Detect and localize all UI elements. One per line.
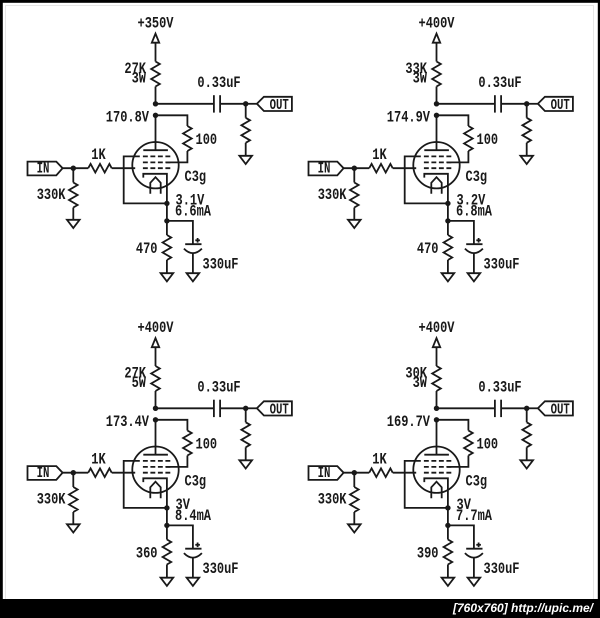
wire R11 to plate node xyxy=(155,87,157,104)
wire R15 to control grid g1 xyxy=(112,167,136,169)
wire OUT node to R42 xyxy=(526,408,528,422)
wire R16 to ground xyxy=(72,208,74,220)
node plate voltage measure point 174.9V xyxy=(434,113,439,118)
node cathode RC junction circuit 3 xyxy=(164,523,169,528)
wire R21 to plate node xyxy=(436,87,438,104)
wire to R14 xyxy=(166,221,168,235)
wire cathode junction to C32 xyxy=(167,525,193,548)
resistor R12 output load xyxy=(241,118,250,143)
node cathode RC junction circuit 4 xyxy=(445,523,450,528)
resistor R21 plate load 33K 3W xyxy=(432,62,441,87)
node OUT junction circuit 4 xyxy=(524,406,529,411)
shield box / g3 connection to cathode xyxy=(405,461,448,508)
svg-text:OUT: OUT xyxy=(270,98,289,114)
wire plate node to C41 xyxy=(437,407,495,409)
svg-text:330uF: 330uF xyxy=(484,256,520,274)
svg-text:IN: IN xyxy=(318,162,331,178)
svg-text:IN: IN xyxy=(37,162,50,178)
svg-text:0.33uF: 0.33uF xyxy=(197,378,240,396)
ground below R46 xyxy=(348,524,361,532)
node OUT junction circuit 1 xyxy=(243,101,248,106)
wire cathode junction to C42 xyxy=(448,525,474,548)
svg-text:OUT: OUT xyxy=(551,98,570,114)
wire cathode to RC junction xyxy=(447,203,449,221)
svg-text:C3g: C3g xyxy=(185,473,207,491)
wire R24 to ground xyxy=(447,260,449,273)
svg-text:C3g: C3g xyxy=(466,168,488,186)
svg-text:+350V: +350V xyxy=(138,15,174,33)
wire plate lead into tube xyxy=(436,115,438,150)
wire plate node to C31 xyxy=(156,407,214,409)
wire OUT node to OUT tag xyxy=(527,407,538,409)
wire OUT node to R12 xyxy=(245,104,247,118)
svg-text:[760x760] http://upic.me/: [760x760] http://upic.me/ xyxy=(452,601,595,615)
resistor R23 screen 100 xyxy=(464,126,473,151)
plus polarity mark C32 xyxy=(195,544,200,546)
capacitor C11 0.33uF coupling xyxy=(213,95,215,112)
ground below R32 xyxy=(239,460,252,468)
capacitor C42 330uF electrolytic bypass xyxy=(466,548,482,550)
wire R22 to ground xyxy=(526,143,528,156)
resistor R13 screen 100 xyxy=(183,126,192,151)
ground below C12 xyxy=(187,273,200,281)
capacitor C32 330uF electrolytic bypass xyxy=(185,548,201,550)
wire IN tag to input node xyxy=(63,167,89,169)
IN port tag circuit 1 xyxy=(28,162,63,176)
wire plate node to R43 (screen grid feed) xyxy=(437,420,469,431)
wire plate lead into tube xyxy=(436,420,438,455)
svg-text:330K: 330K xyxy=(318,186,347,204)
svg-text:3W: 3W xyxy=(413,70,428,88)
wire C21 to OUT node xyxy=(501,103,527,105)
frame border top xyxy=(0,0,600,3)
node OUT junction circuit 2 xyxy=(524,101,529,106)
svg-text:+400V: +400V xyxy=(138,319,174,337)
frame border right xyxy=(598,0,600,618)
ground below R24 xyxy=(442,273,455,281)
resistor R45 grid stopper 1K xyxy=(369,468,393,477)
wire R12 to ground xyxy=(245,143,247,156)
shield box / g3 connection to cathode xyxy=(405,156,448,203)
ground below R34 xyxy=(161,578,174,586)
node input junction circuit 1 xyxy=(71,166,76,171)
wire OUT node to OUT tag xyxy=(246,103,257,105)
node cathode junction circuit 4 xyxy=(445,505,450,510)
node cathode junction circuit 2 xyxy=(445,201,450,206)
wire plate node to R33 (screen grid feed) xyxy=(156,420,188,431)
wire to R34 xyxy=(166,525,168,539)
ground below R22 xyxy=(520,156,533,164)
svg-text:170.8V: 170.8V xyxy=(106,108,149,126)
wire OUT node to OUT tag xyxy=(246,407,257,409)
resistor R26 grid leak 330K xyxy=(350,183,359,208)
node cathode RC junction circuit 2 xyxy=(445,218,450,223)
wire cathode junction to C12 xyxy=(167,221,193,244)
capacitor C22 330uF electrolytic bypass xyxy=(466,243,482,245)
wire C31 to OUT node xyxy=(220,407,246,409)
svg-text:8.4mA: 8.4mA xyxy=(175,507,211,525)
ground below C22 xyxy=(468,273,481,281)
resistor R14 cathode 470 xyxy=(163,235,172,260)
resistor R22 output load xyxy=(522,118,531,143)
svg-text:174.9V: 174.9V xyxy=(387,108,430,126)
tube U4 C3g pentode xyxy=(413,447,459,508)
resistor R31 plate load 27K 5W xyxy=(151,366,160,391)
resistor R11 plate load 27K 3W xyxy=(151,62,160,87)
svg-text:360: 360 xyxy=(136,544,158,562)
svg-text:0.33uF: 0.33uF xyxy=(197,74,240,92)
IN port tag circuit 2 xyxy=(309,162,344,176)
wire C22 to ground xyxy=(473,253,475,273)
wire R32 to ground xyxy=(245,447,247,460)
ground below R16 xyxy=(67,220,80,228)
resistor R41 plate load 30K 3W xyxy=(432,366,441,391)
resistor R24 cathode 470 xyxy=(444,235,453,260)
svg-text:169.7V: 169.7V xyxy=(387,413,430,431)
svg-text:C3g: C3g xyxy=(185,168,207,186)
svg-text:470: 470 xyxy=(417,240,439,258)
ground below R42 xyxy=(520,460,533,468)
svg-text:C3g: C3g xyxy=(466,473,488,491)
ground below R26 xyxy=(348,220,361,228)
svg-text:5W: 5W xyxy=(132,374,147,392)
node cathode junction circuit 1 xyxy=(164,201,169,206)
wire plate lead into tube xyxy=(155,420,157,455)
node input junction circuit 3 xyxy=(71,470,76,475)
OUT port tag circuit 3 xyxy=(257,401,292,415)
wire input node to R36 xyxy=(72,473,74,487)
svg-text:3W: 3W xyxy=(132,70,147,88)
resistor R35 grid stopper 1K xyxy=(88,468,112,477)
wire IN tag to input node xyxy=(344,167,370,169)
node plate/output junction circuit 1 xyxy=(153,101,158,106)
svg-text:IN: IN xyxy=(37,466,50,482)
shield box / g3 connection to cathode xyxy=(124,461,167,508)
OUT port tag circuit 2 xyxy=(538,97,573,111)
resistor R36 grid leak 330K xyxy=(69,487,78,512)
wire to R24 xyxy=(447,221,449,235)
wire plate node to R13 (screen grid feed) xyxy=(156,115,188,126)
wire R33 to screen grid g2 xyxy=(166,456,187,467)
svg-text:100: 100 xyxy=(477,131,499,149)
svg-text:330uF: 330uF xyxy=(203,256,239,274)
svg-text:330uF: 330uF xyxy=(484,560,520,578)
wire cathode to RC junction xyxy=(166,203,168,221)
wire OUT node to R22 xyxy=(526,104,528,118)
ground below R12 xyxy=(239,156,252,164)
tube U2 C3g pentode xyxy=(413,142,459,203)
wire R31 to plate node xyxy=(155,391,157,408)
svg-text:173.4V: 173.4V xyxy=(106,413,149,431)
svg-text:100: 100 xyxy=(196,435,218,453)
wire R25 to control grid g1 xyxy=(393,167,417,169)
wire C11 to OUT node xyxy=(220,103,246,105)
resistor R33 screen 100 xyxy=(183,431,192,456)
wire R34 to ground xyxy=(166,565,168,578)
ground below R36 xyxy=(67,524,80,532)
OUT port tag circuit 4 xyxy=(538,401,573,415)
wire R14 to ground xyxy=(166,260,168,273)
wire V+ to R11 xyxy=(155,43,157,62)
ground below C42 xyxy=(468,578,481,586)
tube U3 C3g pentode xyxy=(132,447,178,508)
capacitor C21 0.33uF coupling xyxy=(494,95,496,112)
capacitor C12 330uF electrolytic bypass xyxy=(185,243,201,245)
wire R35 to control grid g1 xyxy=(112,472,136,474)
svg-text:7.7mA: 7.7mA xyxy=(456,507,492,525)
wire to R44 xyxy=(447,525,449,539)
node plate/output junction circuit 3 xyxy=(153,406,158,411)
svg-text:330K: 330K xyxy=(318,491,347,509)
wire V+ to R21 xyxy=(436,43,438,62)
svg-text:+400V: +400V xyxy=(419,319,455,337)
wire IN tag to input node xyxy=(344,472,370,474)
resistor R15 grid stopper 1K xyxy=(88,164,112,173)
tube U1 C3g pentode xyxy=(132,142,178,203)
resistor R46 grid leak 330K xyxy=(350,487,359,512)
wire R26 to ground xyxy=(353,208,355,220)
wire C32 to ground xyxy=(192,558,194,578)
wire input node to R16 xyxy=(72,168,74,182)
node input junction circuit 2 xyxy=(352,166,357,171)
wire input node to R26 xyxy=(353,168,355,182)
wire R36 to ground xyxy=(72,512,74,524)
shield box / g3 connection to cathode xyxy=(124,156,167,203)
wire R45 to control grid g1 xyxy=(393,472,417,474)
ground below C32 xyxy=(187,578,200,586)
svg-text:330K: 330K xyxy=(37,186,66,204)
svg-text:100: 100 xyxy=(196,131,218,149)
svg-text:330K: 330K xyxy=(37,491,66,509)
power supply arrow V+ circuit 4 xyxy=(433,338,440,347)
node plate voltage measure point 173.4V xyxy=(153,417,158,422)
svg-text:100: 100 xyxy=(477,435,499,453)
frame border left xyxy=(0,0,3,618)
wire R42 to ground xyxy=(526,447,528,460)
OUT port tag circuit 1 xyxy=(257,97,292,111)
ground below R44 xyxy=(442,578,455,586)
node cathode junction circuit 3 xyxy=(164,505,169,510)
resistor R42 output load xyxy=(522,422,531,447)
wire R46 to ground xyxy=(353,512,355,524)
svg-text:1K: 1K xyxy=(372,146,387,164)
wire C42 to ground xyxy=(473,558,475,578)
power supply arrow V+ circuit 1 xyxy=(152,34,159,43)
wire plate node to C21 xyxy=(437,103,495,105)
wire R44 to ground xyxy=(447,565,449,578)
wire R23 to screen grid g2 xyxy=(447,151,468,162)
svg-text:OUT: OUT xyxy=(551,402,570,418)
svg-text:3W: 3W xyxy=(413,374,428,392)
node input junction circuit 4 xyxy=(352,470,357,475)
wire cathode to RC junction xyxy=(447,508,449,526)
plus polarity mark C22 xyxy=(476,239,481,241)
wire plate node to R23 (screen grid feed) xyxy=(437,115,469,126)
IN port tag circuit 3 xyxy=(28,466,63,480)
wire R41 to plate node xyxy=(436,391,438,408)
svg-text:6.8mA: 6.8mA xyxy=(456,202,492,220)
resistor R32 output load xyxy=(241,422,250,447)
wire R43 to screen grid g2 xyxy=(447,456,468,467)
wire cathode to RC junction xyxy=(166,508,168,526)
wire IN tag to input node xyxy=(63,472,89,474)
svg-text:1K: 1K xyxy=(91,451,106,469)
svg-text:1K: 1K xyxy=(372,451,387,469)
capacitor C41 0.33uF coupling xyxy=(494,400,496,417)
node plate voltage measure point 169.7V xyxy=(434,417,439,422)
svg-text:390: 390 xyxy=(417,544,439,562)
svg-text:1K: 1K xyxy=(91,146,106,164)
wire V+ to R31 xyxy=(155,347,157,366)
svg-text:0.33uF: 0.33uF xyxy=(478,74,521,92)
resistor R44 cathode 390 xyxy=(444,540,453,565)
svg-text:6.6mA: 6.6mA xyxy=(175,202,211,220)
node cathode RC junction circuit 1 xyxy=(164,218,169,223)
wire C12 to ground xyxy=(192,253,194,273)
IN port tag circuit 4 xyxy=(309,466,344,480)
resistor R16 grid leak 330K xyxy=(69,183,78,208)
plus polarity mark C42 xyxy=(476,544,481,546)
capacitor C31 0.33uF coupling xyxy=(213,400,215,417)
resistor R34 cathode 360 xyxy=(163,540,172,565)
bottom watermark bar xyxy=(0,599,600,618)
node OUT junction circuit 3 xyxy=(243,406,248,411)
svg-text:0.33uF: 0.33uF xyxy=(478,378,521,396)
wire R13 to screen grid g2 xyxy=(166,151,187,162)
wire cathode junction to C22 xyxy=(448,221,474,244)
ground below R14 xyxy=(161,273,174,281)
wire plate node to C11 xyxy=(156,103,214,105)
plus polarity mark C12 xyxy=(195,239,200,241)
resistor R25 grid stopper 1K xyxy=(369,164,393,173)
power supply arrow V+ circuit 3 xyxy=(152,338,159,347)
resistor R43 screen 100 xyxy=(464,431,473,456)
node plate voltage measure point 170.8V xyxy=(153,113,158,118)
svg-text:IN: IN xyxy=(318,466,331,482)
wire input node to R46 xyxy=(353,473,355,487)
wire V+ to R41 xyxy=(436,347,438,366)
wire OUT node to OUT tag xyxy=(527,103,538,105)
wire OUT node to R32 xyxy=(245,408,247,422)
svg-text:OUT: OUT xyxy=(270,402,289,418)
svg-text:470: 470 xyxy=(136,240,158,258)
node plate/output junction circuit 4 xyxy=(434,406,439,411)
wire plate lead into tube xyxy=(155,115,157,150)
wire C41 to OUT node xyxy=(501,407,527,409)
power supply arrow V+ circuit 2 xyxy=(433,34,440,43)
node plate/output junction circuit 2 xyxy=(434,101,439,106)
svg-text:+400V: +400V xyxy=(419,15,455,33)
svg-text:330uF: 330uF xyxy=(203,560,239,578)
